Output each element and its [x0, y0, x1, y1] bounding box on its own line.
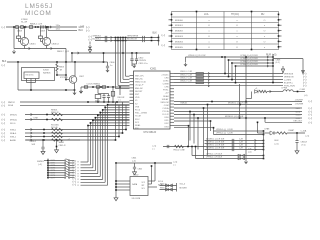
svg-text:LINE: LINE	[34, 118, 39, 120]
svg-text:O: O	[208, 25, 210, 27]
node	[197, 117, 199, 119]
svg-text:LPF04-1 (+5) R 10R: LPF04-1 (+5) R 10R	[241, 58, 259, 60]
node	[37, 26, 39, 28]
node	[103, 52, 105, 54]
arrow	[31, 135, 32, 137]
ground arrow	[88, 47, 91, 53]
node	[203, 107, 205, 109]
node	[115, 189, 117, 191]
wire	[81, 178, 103, 180]
wire	[66, 79, 69, 81]
svg-text:LPF04-1 (+5) R 10R: LPF04-1 (+5) R 10R	[241, 61, 259, 63]
node	[47, 167, 49, 169]
wire	[134, 169, 136, 172]
svg-text:BLU: BLU	[79, 30, 84, 32]
node	[30, 89, 32, 91]
resistor	[52, 118, 63, 120]
IC803 inner body	[24, 72, 39, 79]
wire	[57, 74, 66, 76]
arrow	[50, 26, 51, 28]
wire	[169, 35, 172, 37]
wire	[279, 30, 282, 32]
svg-text:C8015J: C8015J	[52, 43, 59, 45]
node	[42, 139, 44, 141]
node	[154, 162, 156, 164]
wire	[71, 53, 73, 62]
node	[46, 26, 48, 28]
node	[263, 134, 265, 136]
wire	[174, 85, 283, 87]
svg-text:( ): ( )	[119, 100, 121, 102]
svg-text:+5V-NC: +5V-NC	[161, 74, 169, 76]
node table left	[171, 35, 173, 37]
node	[125, 37, 127, 39]
wire to IC pin	[108, 104, 130, 106]
node	[239, 117, 241, 119]
resistor R808	[29, 26, 32, 29]
wire	[48, 29, 77, 31]
wire	[6, 26, 77, 28]
pin wire	[116, 189, 130, 191]
svg-text:(–): (–)	[162, 33, 165, 37]
op-amp U801 main micom IC outline	[134, 71, 171, 129]
x	[245, 98, 247, 100]
svg-text:( ): ( )	[153, 148, 155, 150]
node	[151, 37, 153, 39]
node	[47, 177, 49, 179]
wire	[174, 107, 302, 109]
wire +5 rail	[186, 56, 274, 58]
bus wire	[235, 66, 237, 83]
node	[263, 146, 265, 148]
node	[115, 186, 117, 188]
wire	[108, 94, 110, 96]
arrow	[29, 47, 30, 49]
wire	[174, 76, 283, 78]
node	[263, 143, 265, 145]
svg-text:O: O	[236, 41, 238, 43]
wire to IC pin	[105, 106, 129, 108]
node	[122, 40, 124, 42]
transistor Q803	[69, 76, 77, 84]
svg-text:SEC/NT: SEC/NT	[135, 91, 143, 93]
svg-text:470/16V: 470/16V	[139, 60, 147, 62]
wire	[119, 87, 121, 95]
IC801 left pin stubs	[130, 75, 134, 77]
wire	[274, 132, 277, 134]
arrow	[111, 39, 112, 41]
wire to IC pin	[88, 125, 130, 127]
arrow	[255, 148, 256, 150]
keypad bus	[47, 159, 49, 179]
node	[264, 117, 266, 119]
node	[97, 101, 99, 103]
bus +5	[272, 54, 274, 83]
node	[158, 40, 160, 42]
wire	[18, 27, 20, 36]
arrow	[267, 56, 268, 58]
svg-text:(+5): (+5)	[153, 145, 157, 147]
node	[231, 62, 233, 64]
wire	[25, 136, 119, 138]
svg-text:(+5): (+5)	[38, 164, 42, 166]
IC803 regulator outline	[22, 68, 55, 81]
node	[99, 112, 101, 114]
svg-text:SL-1R: SL-1R	[21, 22, 28, 24]
node	[122, 52, 124, 54]
node	[87, 125, 89, 127]
node	[263, 130, 265, 132]
resistor R804	[84, 86, 87, 88]
resistor	[196, 76, 204, 78]
svg-text:(+5): (+5)	[248, 152, 252, 154]
wire	[174, 73, 283, 75]
mode table	[172, 12, 279, 50]
ground	[133, 172, 137, 175]
wire	[136, 53, 138, 59]
resistor R805	[96, 86, 99, 88]
svg-text:(–): (–)	[2, 113, 5, 117]
node	[224, 73, 226, 75]
wire	[108, 98, 110, 102]
capacitor	[143, 39, 145, 42]
svg-text:C801-R: C801-R	[301, 142, 308, 144]
wire	[81, 167, 93, 169]
switch contact	[64, 177, 65, 178]
wire	[65, 49, 67, 63]
resistor	[196, 79, 204, 81]
diode pair	[166, 188, 173, 191]
wire	[19, 41, 21, 43]
wire	[169, 19, 172, 21]
node	[171, 14, 173, 16]
ground	[12, 50, 15, 54]
node	[263, 155, 265, 157]
node	[97, 114, 99, 116]
svg-text:(–): (–)	[86, 28, 89, 32]
svg-text:(–): (–)	[309, 99, 312, 103]
bus wire	[104, 107, 106, 182]
wire	[279, 24, 282, 26]
node	[297, 91, 299, 93]
wire	[18, 39, 20, 42]
ground	[184, 63, 187, 67]
node	[228, 76, 230, 78]
svg-text:O: O	[208, 47, 210, 49]
wire	[154, 163, 156, 181]
wire	[46, 46, 48, 49]
resistor	[52, 113, 63, 115]
wire	[258, 132, 271, 134]
bus wire	[118, 105, 120, 136]
arrow	[267, 65, 268, 67]
svg-text:SMB+VC10: SMB+VC10	[135, 82, 147, 84]
wire	[196, 158, 264, 160]
svg-text:P1C-A: P1C-A	[162, 110, 169, 113]
svg-text:O: O	[264, 41, 266, 43]
svg-text:MHL-NC: MHL-NC	[135, 88, 143, 90]
ground	[73, 91, 76, 95]
wire	[236, 65, 274, 67]
wire	[41, 41, 43, 43]
wire	[264, 118, 266, 122]
wire to IC pin	[98, 114, 130, 116]
svg-text:MODE2: MODE2	[175, 31, 184, 33]
arrow	[31, 128, 32, 130]
wire	[132, 63, 137, 65]
node	[47, 26, 49, 28]
node table right	[278, 30, 280, 32]
wire	[160, 185, 177, 187]
svg-text:P0LL_CHNG: P0LL_CHNG	[135, 113, 147, 115]
node	[117, 40, 119, 42]
svg-text:FBC02 LINE: FBC02 LINE	[174, 150, 186, 152]
bus wire	[224, 57, 226, 74]
bus wire	[99, 113, 101, 177]
node	[257, 122, 259, 124]
svg-text:SICA: SICA	[8, 104, 13, 107]
wire	[174, 125, 189, 127]
node	[207, 104, 209, 106]
svg-text:C811 0.1u: C811 0.1u	[139, 63, 148, 65]
bus wire	[117, 38, 119, 86]
wire ground rail	[95, 101, 130, 103]
svg-text:C806: C806	[110, 62, 116, 64]
svg-text:IC801: IC801	[150, 67, 157, 70]
capacitor	[232, 145, 234, 148]
wire	[279, 46, 282, 48]
wire	[40, 39, 42, 42]
wire	[95, 40, 159, 42]
wire	[104, 61, 108, 63]
bus wire	[228, 60, 230, 77]
resistor	[196, 73, 204, 75]
wire	[25, 114, 130, 116]
resistor R807	[111, 92, 114, 97]
wire	[81, 184, 108, 186]
wire	[97, 87, 99, 94]
wire	[40, 27, 42, 36]
node	[115, 37, 117, 39]
node	[195, 146, 197, 148]
wire	[25, 132, 123, 134]
node	[263, 149, 265, 151]
svg-text:MODE0-1 (+5) R 10R: MODE0-1 (+5) R 10R	[206, 139, 225, 141]
wire	[279, 40, 282, 42]
arrow	[255, 142, 256, 144]
svg-text:(–): (–)	[73, 182, 76, 186]
node	[115, 162, 117, 164]
node	[231, 79, 233, 81]
inductor L803	[283, 90, 293, 92]
svg-text:IC803: IC803	[43, 70, 49, 72]
node	[235, 82, 237, 84]
svg-text:COM8: COM8	[163, 84, 170, 86]
node	[115, 40, 117, 42]
node	[71, 52, 73, 54]
wire	[169, 46, 172, 48]
node	[100, 86, 102, 88]
node	[46, 119, 48, 121]
pin wire	[116, 183, 130, 185]
ground arrow	[281, 66, 284, 73]
bus wire	[239, 84, 241, 118]
transistor Q801	[20, 37, 28, 45]
svg-text:SDA1: SDA1	[135, 124, 141, 127]
wire	[25, 129, 126, 131]
bus wire	[207, 105, 209, 156]
capacitor C809	[44, 25, 46, 28]
node	[119, 86, 121, 88]
wire	[279, 19, 282, 21]
svg-text:T1CM: T1CM	[135, 116, 141, 118]
wire	[205, 149, 264, 151]
node table right	[278, 41, 280, 43]
svg-text:HY(CC): HY(CC)	[231, 14, 239, 16]
node	[131, 52, 133, 54]
resistor	[196, 82, 204, 84]
wire	[246, 98, 252, 100]
svg-text:BLU/BLU8: BLU/BLU8	[127, 38, 138, 40]
svg-text:LPF04-1 ( ) R 0.1W: LPF04-1 ( ) R 0.1W	[188, 55, 205, 57]
wire to IC pin	[100, 112, 129, 114]
svg-text:LPF04-1 (+5) R 10R: LPF04-1 (+5) R 10R	[241, 64, 259, 66]
svg-text:(–): (–)	[2, 138, 5, 142]
IC801 right pin stubs	[170, 73, 174, 75]
svg-text:50R: 50R	[32, 144, 36, 146]
transistor Q802	[42, 37, 50, 45]
node	[235, 65, 237, 67]
switch contact	[64, 170, 65, 171]
resistor	[52, 135, 63, 137]
svg-text:+5V-RMT: +5V-RMT	[295, 99, 304, 101]
node table left	[171, 19, 173, 21]
bus wire	[231, 63, 233, 80]
wire to IC pin	[103, 109, 130, 111]
svg-text:(–): (–)	[2, 63, 5, 67]
arrow	[31, 132, 32, 134]
svg-text:SIC-0: SIC-0	[10, 123, 16, 125]
svg-text:RMA?: RMA?	[289, 129, 295, 132]
node table right	[278, 19, 280, 21]
ground	[79, 90, 82, 94]
svg-text:MODE0: MODE0	[175, 20, 184, 22]
svg-text:(+5): (+5)	[306, 136, 310, 138]
wire	[65, 62, 67, 80]
svg-text:charge-P: charge-P	[135, 84, 144, 87]
node	[272, 65, 274, 67]
svg-text:(+5): (+5)	[81, 25, 85, 27]
node	[117, 37, 119, 39]
node	[74, 61, 76, 63]
wire	[27, 82, 36, 84]
wire	[174, 117, 302, 119]
node	[125, 40, 127, 42]
wire	[48, 162, 64, 164]
bus wire	[125, 105, 127, 129]
svg-text:(+5): (+5)	[304, 95, 308, 97]
bus wire	[89, 123, 91, 165]
wire	[176, 183, 178, 192]
svg-text:MMB: MMB	[296, 111, 301, 113]
ground	[295, 151, 299, 154]
wire	[229, 59, 274, 61]
svg-text:SDA-0: SDA-0	[10, 132, 17, 135]
node	[272, 62, 274, 64]
svg-text:SC10: SC10	[296, 114, 302, 116]
node	[87, 101, 89, 103]
node	[65, 74, 67, 76]
node	[103, 101, 105, 103]
wire	[279, 35, 282, 37]
svg-text:(–): (–)	[309, 120, 312, 124]
node	[120, 40, 122, 42]
node table right	[278, 35, 280, 37]
svg-text:+5V-RMR: +5V-RMR	[295, 104, 304, 106]
capacitor C816	[41, 147, 44, 149]
svg-text:C808: C808	[17, 31, 23, 33]
diode pair	[238, 157, 245, 160]
wire	[25, 119, 130, 121]
svg-text:MODE5: MODE5	[175, 47, 184, 49]
capacitor C813	[107, 96, 110, 98]
node	[296, 132, 298, 134]
svg-text:VSS: VSS	[135, 106, 140, 108]
svg-text:(+5): (+5)	[275, 143, 279, 145]
wire +5 rail	[72, 52, 150, 54]
node	[47, 162, 49, 164]
wire	[131, 53, 133, 59]
capacitor	[232, 139, 234, 142]
node	[245, 101, 247, 103]
wire	[191, 147, 193, 156]
svg-text:C8015: C8015	[30, 43, 37, 45]
wire	[80, 87, 82, 89]
svg-text:FLC0: FLC0	[135, 110, 141, 112]
wire	[24, 27, 26, 37]
node	[56, 139, 58, 141]
switch contact	[64, 160, 65, 161]
arrow	[25, 26, 26, 28]
svg-text:C809: C809	[40, 31, 46, 33]
wire	[174, 114, 302, 116]
node	[90, 122, 92, 124]
svg-text:MT3(2): MT3(2)	[10, 119, 17, 121]
ground	[88, 45, 91, 49]
node	[47, 172, 49, 174]
wire	[293, 91, 305, 93]
eeprom bus	[115, 163, 117, 198]
ground	[41, 152, 45, 155]
svg-text:ECM PLL: ECM PLL	[284, 83, 294, 85]
wire	[160, 189, 177, 191]
wire	[136, 61, 138, 64]
wire	[296, 143, 298, 151]
svg-text:O: O	[236, 47, 238, 49]
resistor RMA	[277, 132, 287, 134]
node	[108, 101, 110, 103]
wire	[30, 83, 32, 91]
wire to IC pin	[121, 81, 130, 83]
diode D802	[255, 90, 259, 93]
pin 1	[26, 79, 28, 83]
svg-text:(–): (–)	[303, 84, 306, 88]
svg-text:VERSION: VERSION	[284, 76, 294, 78]
node	[95, 117, 97, 119]
ground	[79, 90, 82, 94]
wire	[81, 181, 106, 183]
bus wire	[188, 126, 190, 147]
